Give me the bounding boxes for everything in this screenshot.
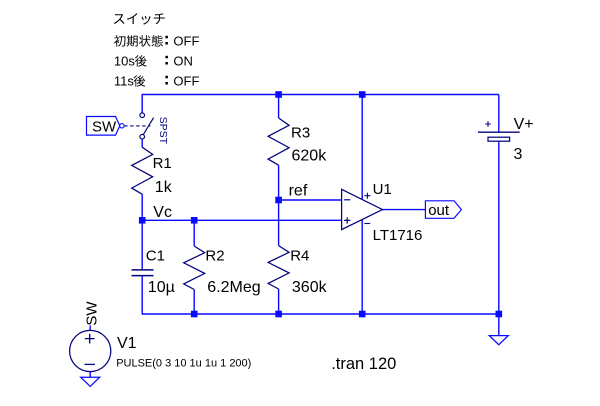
svg-text:R2: R2 <box>205 248 224 265</box>
op-amp inverting input mark <box>344 199 350 201</box>
label V1 value <box>116 358 251 370</box>
svg-text:6.2Meg: 6.2Meg <box>207 279 260 296</box>
wire R1 to Vc node <box>141 194 143 220</box>
wire R4 top lead <box>278 200 280 246</box>
svg-text:SW: SW <box>92 119 117 136</box>
label V+ value <box>514 146 523 163</box>
label V+ name <box>514 116 534 133</box>
svg-text:360k: 360k <box>292 279 328 296</box>
svg-text:R1: R1 <box>153 155 172 172</box>
switch control dashed wire <box>124 125 150 127</box>
svg-text:11s: 11s <box>114 74 134 89</box>
svg-text:10µ: 10µ <box>148 279 175 296</box>
wire top bus <box>142 94 499 96</box>
svg-text:V1: V1 <box>117 335 137 352</box>
svg-text:C1: C1 <box>146 247 165 264</box>
net flag out <box>425 201 461 219</box>
svg-text:1k: 1k <box>155 179 173 196</box>
label R2 name <box>205 248 224 265</box>
node label ref <box>289 182 308 199</box>
wire Vc to C1 <box>141 220 143 270</box>
junction battery bottom <box>496 311 503 318</box>
op-amp V- pin mark <box>364 223 370 225</box>
svg-text:R4: R4 <box>290 248 309 265</box>
junction R4 bottom <box>275 311 282 318</box>
wire battery top lead <box>498 95 500 133</box>
ground battery <box>489 336 508 345</box>
resistor R1 <box>132 147 153 194</box>
svg-text:SPST: SPST <box>157 117 169 145</box>
node label Vc <box>153 204 172 221</box>
svg-text:U1: U1 <box>373 181 392 198</box>
wire R2 bottom lead <box>193 290 195 315</box>
junction U1 V+ rail top <box>359 91 366 98</box>
annotation line1 initial state OFF <box>114 34 199 49</box>
label V1 name <box>117 335 137 352</box>
label R2 value <box>207 279 260 296</box>
label R3 name <box>291 125 310 142</box>
net flag SW <box>87 117 125 136</box>
label R4 name <box>290 248 309 265</box>
op-amp U1 body <box>342 189 383 229</box>
label U1 type <box>373 227 423 244</box>
svg-text:3: 3 <box>514 146 523 163</box>
svg-text:ON: ON <box>173 54 193 69</box>
label C1 name <box>146 247 165 264</box>
ground V1 <box>81 377 100 386</box>
label R1 value <box>155 179 173 196</box>
svg-text:.tran 120: .tran 120 <box>331 355 396 373</box>
label U1 name <box>373 181 392 198</box>
wire R4 bottom lead <box>278 289 280 314</box>
switch SPST label <box>157 117 169 145</box>
junction R2 top <box>191 217 198 224</box>
label R3 value <box>292 147 328 164</box>
wire R2 top lead <box>193 220 195 246</box>
wire switch column upper <box>141 94 143 113</box>
wire U1 V+ rail <box>361 95 363 200</box>
svg-text:OFF: OFF <box>173 34 199 49</box>
wire R3 to ref node <box>278 165 280 200</box>
annotation line2 after 10s ON <box>114 54 193 69</box>
junction node Vc <box>139 217 146 224</box>
switch SW1 SPST body <box>140 113 154 139</box>
svg-text:OFF: OFF <box>173 74 199 89</box>
resistor R2 <box>184 246 205 290</box>
svg-text:PULSE(0 3 10 1u 1u 1 200): PULSE(0 3 10 1u 1u 1 200) <box>116 358 251 370</box>
svg-text:620k: 620k <box>292 147 328 164</box>
label C1 value <box>148 279 175 296</box>
wire V1 bottom stub <box>89 372 91 378</box>
wire R3 top lead <box>278 95 280 119</box>
wire bottom bus <box>142 313 499 315</box>
label R4 value <box>292 279 328 296</box>
wire switch to R1 <box>141 139 143 147</box>
svg-text:V+: V+ <box>514 116 534 133</box>
junction R2 bottom <box>191 311 198 318</box>
op-amp V+ pin mark <box>364 193 370 199</box>
svg-text:R3: R3 <box>291 125 310 142</box>
op-amp non-inverting input mark <box>344 217 350 223</box>
annotation title switch <box>114 13 165 24</box>
net label SW at V1 <box>84 301 101 326</box>
junction node ref <box>275 197 282 204</box>
directive .tran <box>331 355 396 373</box>
wire V1 top stub <box>89 325 91 330</box>
wire battery to ground <box>498 141 500 335</box>
svg-text:LT1716: LT1716 <box>373 227 423 244</box>
battery V+ source <box>478 121 520 141</box>
svg-text:SW: SW <box>84 301 101 326</box>
node Vc wire <box>142 219 341 221</box>
svg-text:10s: 10s <box>114 54 135 69</box>
wire U1 V- rail <box>361 219 363 314</box>
junction R3 top <box>275 91 282 98</box>
capacitor C1 <box>132 270 154 276</box>
label R1 name <box>153 155 172 172</box>
svg-text:ref: ref <box>289 182 308 199</box>
svg-text:Vc: Vc <box>153 204 172 221</box>
wire C1 to bottom bus <box>141 276 143 315</box>
wire U1 output to out flag <box>383 209 426 211</box>
junction U1 V- rail bottom <box>359 311 366 318</box>
annotation line3 after 11s OFF <box>114 74 200 89</box>
resistor R4 <box>268 246 289 289</box>
node ref wire <box>279 199 342 201</box>
voltage source V1 body <box>70 330 111 371</box>
resistor R3 <box>268 118 289 165</box>
svg-text:out: out <box>428 202 450 219</box>
